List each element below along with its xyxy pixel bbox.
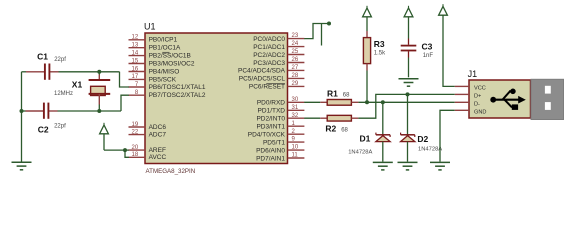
svg-text:1N4728A: 1N4728A	[348, 149, 372, 155]
wire: VCC to R3 top	[366, 17, 368, 31]
svg-text:18: 18	[132, 152, 139, 158]
svg-text:AREF: AREF	[149, 147, 166, 154]
svg-text:15: 15	[132, 58, 139, 64]
svg-text:PB0/ICP1: PB0/ICP1	[149, 37, 178, 44]
svg-text:68: 68	[343, 93, 350, 99]
pin 31 PD1/TXD (right)	[258, 105, 305, 115]
node: junction dot crystal top lead on XTAL1 net	[97, 70, 101, 74]
wire: D1 to ground	[382, 142, 384, 162]
svg-text:27: 27	[292, 65, 299, 71]
svg-text:PB6/TOSC1/XTAL1: PB6/TOSC1/XTAL1	[149, 84, 206, 91]
crystal X1 12MHz	[54, 80, 110, 98]
svg-text:PC0/ADC0: PC0/ADC0	[253, 36, 285, 43]
pin 8 PB7/TOSC2/XTAL2 (left)	[129, 90, 206, 99]
ground (below D1)	[373, 162, 393, 170]
wire: top XTAL1 net from rail through C1 to pin 7	[22, 72, 129, 87]
svg-text:ADC7: ADC7	[149, 132, 167, 139]
node: dangling junction dot on PC0 net	[327, 22, 331, 26]
svg-text:31: 31	[292, 105, 299, 111]
resistor R3 1.5k	[363, 38, 386, 64]
node: junction dot R3/D-	[365, 100, 369, 104]
svg-text:32: 32	[292, 113, 299, 119]
wire: PC0 zigzag net from pin 23	[304, 24, 329, 46]
pin 17 PB5/SCK (left)	[129, 74, 177, 83]
pin 25 PC2/ADC2 (right)	[253, 49, 304, 59]
capacitor C1 22pf	[37, 52, 66, 80]
node: junction dot D2/D+	[406, 92, 410, 96]
svg-text:PB2/SS/OC1B: PB2/SS/OC1B	[149, 53, 191, 60]
svg-text:19: 19	[132, 122, 139, 128]
svg-text:PD4/T0/XCK: PD4/T0/XCK	[248, 132, 286, 139]
pin 2 PD4/T0/XCK (right)	[248, 129, 305, 139]
svg-text:ADC6: ADC6	[149, 124, 167, 131]
svg-text:U1: U1	[144, 22, 156, 32]
svg-text:D+: D+	[474, 93, 481, 99]
wire: D- net down to D1	[382, 102, 384, 134]
svg-text:PB5/SCK: PB5/SCK	[149, 76, 177, 83]
svg-text:GND: GND	[474, 109, 486, 115]
pin 15 PB3/MOSI/OC2 (left)	[129, 58, 195, 67]
svg-text:R2: R2	[325, 123, 336, 133]
wire: pin 30 to R1	[304, 101, 320, 103]
power VCC arrow (above R3)	[363, 6, 372, 17]
svg-text:11: 11	[292, 153, 299, 159]
capacitor C2 22pf	[38, 103, 66, 135]
wire: R1 to J1 D- pin	[358, 101, 454, 103]
power VCC arrow (above C3)	[404, 6, 413, 17]
wire: R2 up and over to J1 D+ pin	[358, 94, 454, 118]
svg-text:PD5/T1: PD5/T1	[263, 139, 285, 146]
connector J1 USB	[455, 69, 531, 118]
svg-text:12: 12	[132, 35, 139, 41]
svg-text:12MHz: 12MHz	[54, 91, 73, 97]
pin 1 PD3/INT1 (right)	[256, 121, 304, 131]
pin 13 PB1/OC1A (left)	[129, 43, 182, 52]
diode D1 zener 1N4728A	[348, 133, 390, 156]
svg-text:PD6/AIN0: PD6/AIN0	[256, 147, 285, 154]
svg-text:PB4/MISO: PB4/MISO	[149, 68, 180, 75]
svg-text:68: 68	[341, 127, 348, 133]
svg-text:PB7/TOSC2/XTAL2: PB7/TOSC2/XTAL2	[149, 92, 206, 99]
pin 19 ADC6 (left)	[129, 122, 167, 131]
pin 29 PC6/RESET (right)	[249, 81, 305, 91]
svg-text:PC1/ADC1: PC1/ADC1	[253, 44, 285, 51]
svg-text:24: 24	[292, 41, 299, 47]
wire: left rail from top wire down to ground	[21, 72, 23, 162]
svg-text:1nF: 1nF	[423, 53, 434, 59]
svg-text:17: 17	[132, 74, 139, 80]
pin 10 PD6/AIN0 (right)	[256, 145, 304, 155]
svg-text:D2: D2	[417, 134, 428, 144]
svg-text:16: 16	[132, 66, 139, 72]
USB plug metal shell	[531, 79, 564, 119]
svg-text:R1: R1	[327, 89, 338, 99]
svg-text:PC2/ADC2: PC2/ADC2	[253, 52, 285, 59]
ground (below C3)	[399, 79, 419, 87]
svg-text:PC6/RESET: PC6/RESET	[249, 84, 285, 91]
power VCC arrow (J1 VCC)	[439, 4, 448, 15]
pin 30 PD0/RXD (right)	[257, 97, 305, 107]
pin 9 PD5/T1 (right)	[263, 137, 304, 147]
svg-text:X1: X1	[72, 80, 83, 90]
svg-text:D-: D-	[474, 101, 480, 107]
svg-text:ATMEGA8_32PIN: ATMEGA8_32PIN	[146, 168, 196, 175]
svg-text:22pf: 22pf	[54, 123, 66, 129]
svg-text:J1: J1	[468, 69, 478, 79]
svg-text:C2: C2	[38, 124, 49, 134]
svg-text:PD3/INT1: PD3/INT1	[256, 124, 285, 131]
pin 28 PC5/ADC5/SCL (right)	[239, 73, 305, 83]
resistor R1 68	[320, 89, 358, 106]
svg-text:1.5k: 1.5k	[374, 50, 386, 56]
pin 12 PB0/ICP1 (left)	[129, 35, 178, 44]
wire: crystal bottom lead	[98, 94, 100, 105]
pin 18 AVCC (left)	[129, 152, 167, 161]
pin 24 PC1/ADC1 (right)	[253, 41, 304, 51]
svg-text:VCC: VCC	[474, 85, 486, 91]
svg-text:PB3/MOSI/OC2: PB3/MOSI/OC2	[149, 60, 195, 67]
svg-text:R3: R3	[374, 39, 385, 49]
wire: C3 bottom to ground	[408, 51, 410, 77]
pin 14 PB2/SS/OC1B (left)	[129, 50, 191, 59]
microcontroller U1 ATMEGA8_32PIN	[144, 22, 288, 175]
resistor R2 68	[320, 115, 358, 133]
pin 23 PC0/ADC0 (right)	[253, 33, 304, 43]
svg-text:PB1/OC1A: PB1/OC1A	[149, 45, 181, 52]
wire: pin 32 to R2	[304, 117, 320, 119]
wire: AVCC arrow to AREF pin 20	[104, 134, 129, 150]
pin 26 PC3/ADC3 (right)	[253, 57, 304, 67]
pin 32 PD2/INT0 (right)	[256, 113, 304, 123]
node: junction dot XTAL2 net at left rail	[20, 109, 24, 113]
svg-text:AVCC: AVCC	[149, 154, 167, 161]
svg-text:20: 20	[132, 145, 139, 151]
wire: bottom XTAL2 net from rail through C2 to pin 8	[22, 95, 129, 111]
ground (left rail)	[12, 162, 32, 170]
wire: branch down to AVCC pin 18	[125, 150, 129, 157]
capacitor C3 1nF	[401, 41, 434, 59]
svg-text:13: 13	[132, 43, 139, 49]
svg-text:23: 23	[292, 33, 299, 39]
svg-text:22pf: 22pf	[54, 57, 66, 63]
svg-text:1N4728A: 1N4728A	[418, 147, 442, 153]
power VCC arrow (AVCC/AREF)	[100, 123, 109, 134]
pin 11 PD7/AIN1 (right)	[256, 153, 304, 163]
pin 20 AREF (left)	[129, 145, 166, 154]
svg-text:PD0/RXD: PD0/RXD	[257, 100, 285, 107]
node: junction dot AREF/AVCC	[123, 148, 127, 152]
diode D2 zener 1N4728A	[401, 133, 443, 153]
svg-text:26: 26	[292, 57, 299, 63]
svg-text:C3: C3	[422, 41, 433, 51]
svg-text:PD7/AIN1: PD7/AIN1	[256, 155, 285, 162]
svg-text:C1: C1	[37, 52, 48, 62]
svg-text:22: 22	[132, 129, 139, 135]
node: junction dot crystal bottom lead on XTAL2 net	[97, 109, 101, 113]
pin 22 ADC7 (left)	[129, 129, 167, 138]
ground (below D2)	[398, 162, 418, 170]
wire: J1 GND pin to ground	[440, 110, 455, 161]
USB trident icon	[490, 89, 525, 110]
svg-text:PD2/INT0: PD2/INT0	[256, 116, 285, 123]
wire: R3 bottom to D- net	[366, 64, 368, 103]
wire: D+ net down to D2	[407, 94, 409, 134]
pin 16 PB4/MISO (left)	[129, 66, 180, 75]
wire: VCC down to J1 VCC pin	[443, 15, 455, 86]
ground (J1 GND)	[430, 162, 450, 170]
wire: crystal top lead	[98, 72, 100, 75]
svg-text:PD1/TXD: PD1/TXD	[258, 108, 286, 115]
svg-text:PC3/ADC3: PC3/ADC3	[253, 60, 285, 67]
svg-text:29: 29	[292, 81, 299, 87]
svg-text:10: 10	[292, 145, 299, 151]
svg-text:30: 30	[292, 97, 299, 103]
pin 27 PC4/ADC4/SDA (right)	[238, 65, 304, 75]
wire: VCC to C3 top	[408, 17, 410, 45]
svg-text:PC4/ADC4/SDA: PC4/ADC4/SDA	[238, 68, 286, 75]
pin 7 PB6/TOSC1/XTAL1 (left)	[129, 82, 206, 91]
svg-text:PC5/ADC5/SCL: PC5/ADC5/SCL	[239, 76, 286, 83]
svg-text:25: 25	[292, 49, 299, 55]
svg-text:28: 28	[292, 73, 299, 79]
svg-text:14: 14	[132, 50, 139, 56]
wire: D2 to ground	[407, 142, 409, 162]
svg-text:D1: D1	[360, 133, 371, 143]
node: junction dot D1/D-	[381, 100, 385, 104]
